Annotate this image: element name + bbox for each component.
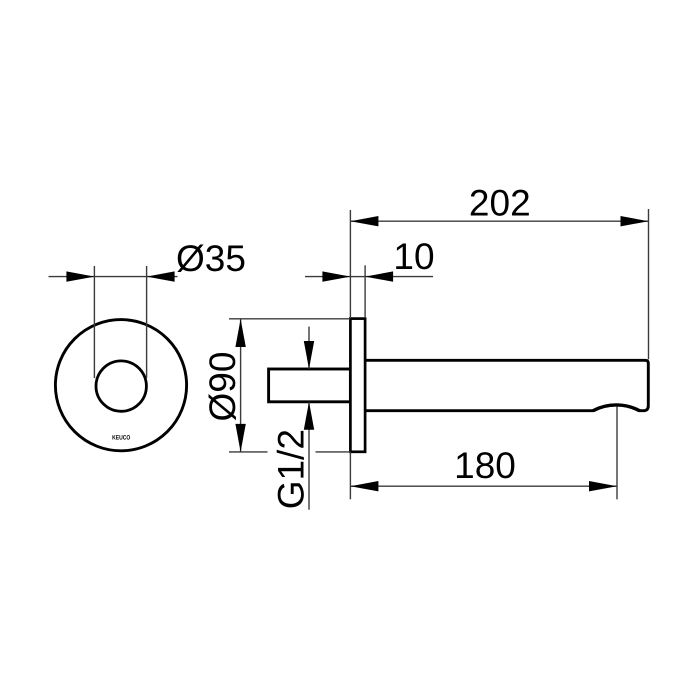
G1/2 threaded connector bbox=[269, 369, 351, 402]
svg-text:G1/2: G1/2 bbox=[271, 429, 312, 509]
extension line 202 right (to spout end) bbox=[648, 209, 650, 359]
dimension 10: left leader line bbox=[305, 276, 350, 278]
extension line left of Ø35 bbox=[93, 266, 95, 378]
dimension G1/2: upper arrow pointing down bbox=[304, 341, 314, 369]
dimension G1/2: lower arrow pointing up bbox=[304, 402, 314, 430]
dimension 202: right arrow bbox=[621, 216, 649, 226]
dimension 10: left arrow pointing right bbox=[322, 271, 350, 281]
extension line Ø90 bottom bbox=[229, 451, 350, 453]
dimension 202: left arrow bbox=[350, 216, 378, 226]
extension line Ø90 top bbox=[229, 318, 350, 320]
dimension G1/2: lower line bbox=[308, 402, 310, 510]
svg-text:10: 10 bbox=[393, 236, 434, 277]
extension line right of Ø35 bbox=[146, 266, 148, 378]
dimension Ø35: left arrow pointing right bbox=[66, 271, 94, 281]
dimension Ø35: right leader line bbox=[147, 276, 178, 278]
dimension Ø35: right arrow pointing left bbox=[147, 271, 175, 281]
svg-text:Ø35: Ø35 bbox=[176, 238, 246, 279]
dimension 10: right arrow pointing left bbox=[365, 271, 393, 281]
extension line 202 left (above plate) bbox=[349, 210, 351, 318]
label mask under G1/2 text bbox=[268, 427, 316, 511]
dimension Ø90: vertical line bbox=[240, 319, 242, 452]
dimension 10: middle line bbox=[350, 276, 365, 278]
svg-text:KEUCO: KEUCO bbox=[112, 434, 130, 441]
dimension 180: line bbox=[350, 485, 617, 487]
svg-text:202: 202 bbox=[469, 182, 531, 223]
extension line 10 right (plate right face) bbox=[364, 265, 366, 318]
dimension Ø35: left leader line bbox=[49, 276, 95, 278]
spout tube side view bbox=[365, 360, 648, 410]
dimension 180: left arrow bbox=[350, 481, 378, 491]
dimension G1/2: upper line bbox=[308, 327, 310, 369]
extension line 180 right (from outlet) bbox=[616, 407, 618, 500]
inner circle: spout tube front view Ø35 bbox=[96, 361, 146, 411]
dimension Ø90: top arrow pointing up bbox=[235, 319, 245, 347]
svg-text:180: 180 bbox=[454, 445, 516, 486]
dimension Ø35: middle line bbox=[94, 276, 146, 278]
dimension 202: line bbox=[350, 220, 648, 222]
outlet arc emphasis bbox=[593, 405, 640, 411]
extension line 180 left (below plate) bbox=[349, 452, 351, 499]
dimension 180: right arrow bbox=[589, 481, 617, 491]
outer circle: escutcheon front view Ø90 bbox=[55, 320, 186, 451]
dimension Ø90: bottom arrow pointing down bbox=[235, 424, 245, 452]
svg-text:Ø90: Ø90 bbox=[202, 352, 243, 422]
wall plate side view bbox=[350, 319, 365, 452]
dimension 10: right leader line bbox=[365, 276, 433, 278]
